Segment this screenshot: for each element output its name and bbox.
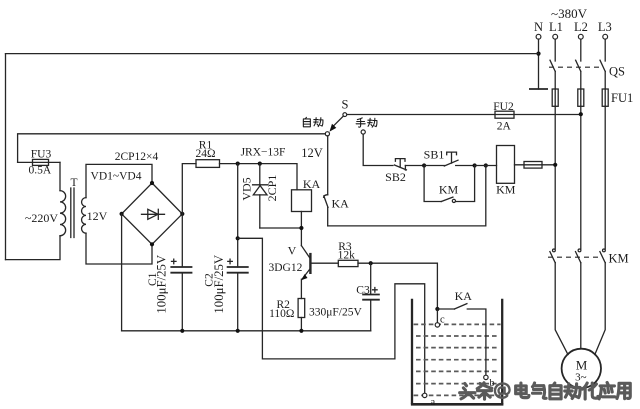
- svg-text:KM: KM: [439, 183, 459, 197]
- resistor R3: [338, 241, 358, 266]
- svg-text:KM: KM: [609, 252, 629, 266]
- bridge rectifier diamond: [122, 183, 183, 244]
- svg-text:KM: KM: [496, 183, 516, 197]
- wire manual down and to SB2: [363, 134, 393, 165]
- svg-text:a: a: [430, 397, 435, 408]
- node SB2-SB1: [422, 163, 426, 167]
- contactor KM main pole 2: [576, 249, 581, 349]
- terminal L3: [598, 20, 612, 39]
- svg-text:C3: C3: [356, 284, 370, 296]
- svg-text:QS: QS: [609, 65, 625, 79]
- node rail-VD5: [258, 162, 262, 166]
- svg-text:S: S: [342, 98, 349, 112]
- svg-text:3~: 3~: [575, 372, 587, 384]
- svg-text:12k: 12k: [338, 250, 356, 262]
- svg-text:100μF/25V: 100μF/25V: [154, 254, 168, 314]
- svg-text:2CP12×4: 2CP12×4: [115, 151, 159, 163]
- 化: [582, 383, 597, 399]
- terminal L2: [574, 20, 588, 39]
- fuse FU1 pole L3: [602, 89, 608, 106]
- wire to primary: [59, 162, 61, 190]
- 应: [599, 383, 615, 399]
- node N junction: [536, 52, 540, 56]
- 条: [477, 383, 492, 399]
- node bridge right: [180, 212, 184, 216]
- transformer T secondary coil: [82, 198, 86, 234]
- svg-text:VD5: VD5: [239, 177, 253, 200]
- fuse FU1 pole L1: [552, 89, 558, 106]
- transistor V 3DG12: [268, 244, 310, 299]
- node KM-coil feed: [484, 163, 488, 167]
- switch QS pole L1: [550, 39, 555, 89]
- wire base to R3: [312, 262, 339, 264]
- node rail-C1: [180, 329, 184, 333]
- wire VD5 to KA coil bottom: [260, 227, 302, 229]
- wire bottom rail: [122, 330, 371, 332]
- motor M: [562, 349, 601, 388]
- fuse FU3: [18, 149, 60, 177]
- label 自动 (auto): [303, 117, 323, 126]
- node KA-VD5-collector: [299, 226, 303, 230]
- wire R3 to tank feed: [358, 263, 437, 309]
- svg-text:c: c: [440, 314, 445, 325]
- svg-text:FU1: FU1: [611, 91, 633, 105]
- switch S selector: [330, 98, 349, 132]
- node auto contact: [325, 132, 329, 136]
- wire C2 tap to electrode a: [238, 238, 425, 393]
- wire down to KA rail: [328, 166, 486, 226]
- fuse FU1 pole L2: [578, 89, 584, 106]
- node rail-C2: [236, 162, 240, 166]
- node C2 tap: [236, 236, 240, 240]
- node rail-R2: [299, 329, 303, 333]
- wire KA coil to collector: [300, 212, 302, 246]
- wire L3 down: [604, 106, 606, 249]
- @: [495, 383, 510, 397]
- svg-text:24Ω: 24Ω: [195, 148, 215, 160]
- 头: [460, 384, 475, 399]
- terminal N: [534, 20, 543, 39]
- transformer T primary coil: [60, 191, 66, 236]
- svg-text:T: T: [70, 177, 77, 189]
- wire L2 down: [580, 106, 582, 249]
- svg-text:L1: L1: [549, 20, 563, 34]
- coil KM: [496, 146, 516, 197]
- switch QS pole L2: [576, 39, 581, 89]
- electrode b: [484, 375, 495, 389]
- wire L1 down: [554, 106, 556, 249]
- svg-text:VD1~VD4: VD1~VD4: [91, 171, 142, 183]
- svg-text:L2: L2: [574, 20, 588, 34]
- pushbutton SB1 (NO): [424, 147, 475, 166]
- contact KA (level switch): [435, 289, 486, 375]
- svg-text:3DG12: 3DG12: [268, 262, 302, 274]
- svg-text:330μF/25V: 330μF/25V: [309, 306, 363, 318]
- svg-text:SB2: SB2: [385, 170, 406, 184]
- svg-text:FU2: FU2: [493, 101, 514, 113]
- wire N down with neutral bar: [529, 39, 548, 89]
- resistor R2: [269, 299, 305, 331]
- node rail-C2: [236, 329, 240, 333]
- svg-text:V: V: [288, 244, 297, 258]
- fuse (unlabelled) right of KM coil: [515, 162, 556, 169]
- node SB1 right: [473, 163, 477, 167]
- electrode c: [435, 309, 445, 327]
- wire secondary top to bridge AC1: [86, 164, 152, 197]
- capacitor C2: [204, 164, 249, 331]
- svg-text:SB1: SB1: [424, 147, 445, 161]
- svg-text:100μF/25V: 100μF/25V: [212, 254, 226, 314]
- svg-text:~220V: ~220V: [25, 211, 58, 225]
- wire primary bottom to left edge: [6, 236, 61, 260]
- capacitor C3: [309, 263, 380, 331]
- svg-text:KA: KA: [332, 196, 350, 210]
- wire left edge down: [5, 54, 7, 260]
- node on L1: [553, 163, 557, 167]
- 电: [516, 383, 529, 398]
- contact KA (auto mode, vertical): [324, 136, 350, 226]
- svg-text:110Ω: 110Ω: [269, 308, 294, 320]
- svg-text:0.5A: 0.5A: [28, 165, 51, 177]
- svg-text:KA: KA: [455, 289, 473, 303]
- svg-text:L3: L3: [598, 20, 612, 34]
- svg-text:FU3: FU3: [31, 149, 52, 161]
- contactor KM main pole 3: [595, 249, 606, 355]
- wire 12V rail: [220, 164, 298, 190]
- switch QS pole L3: [600, 39, 605, 89]
- watermark 头条@电气自动化应用: [460, 383, 631, 400]
- QS linkage dashed: [549, 66, 603, 68]
- transformer core: [71, 188, 74, 238]
- node bridge left: [120, 212, 124, 216]
- svg-text:~380V: ~380V: [551, 6, 588, 21]
- wire auto-contact to FU3: [18, 134, 326, 163]
- svg-text:12V: 12V: [87, 209, 108, 223]
- bridge inner diode: [142, 209, 165, 219]
- svg-text:JRX−13F: JRX−13F: [241, 147, 286, 159]
- pushbutton SB2 (NC): [385, 159, 424, 184]
- electrode a: [423, 393, 436, 408]
- node bridge top: [150, 181, 154, 185]
- terminal L1: [549, 20, 563, 39]
- tank walls: [411, 299, 504, 405]
- 动: [565, 384, 580, 399]
- contact KM aux (self-hold): [424, 166, 475, 203]
- wire bridge plus up to rail and down to C1: [182, 164, 196, 267]
- svg-text:2A: 2A: [497, 121, 512, 133]
- svg-text:M: M: [576, 358, 588, 373]
- wire bridge minus down: [121, 214, 123, 331]
- capacitor C1: [147, 254, 192, 331]
- relay coil KA: [292, 177, 321, 212]
- node R3-C3: [369, 261, 373, 265]
- 用: [617, 383, 630, 398]
- svg-text:KA: KA: [303, 177, 321, 191]
- diode VD5: [253, 164, 268, 228]
- node bridge bottom: [150, 242, 154, 246]
- contact manual: [361, 130, 365, 134]
- fuse FU2 with wire from S: [347, 101, 581, 133]
- contactor KM main pole 1: [550, 249, 568, 355]
- wire secondary bottom to bridge AC2: [86, 233, 152, 264]
- label 手动 (manual): [356, 118, 377, 127]
- svg-text:N: N: [534, 20, 543, 34]
- svg-text:2CP1: 2CP1: [265, 175, 279, 202]
- 气: [533, 383, 547, 398]
- node FU2-L2: [579, 112, 583, 116]
- wire top long to left: [6, 53, 539, 55]
- resistor R1: [195, 140, 219, 168]
- svg-text:12V: 12V: [301, 146, 323, 160]
- KM main linkage dashed: [548, 256, 600, 258]
- water level dashed lines: [414, 324, 501, 395]
- 自: [550, 383, 561, 399]
